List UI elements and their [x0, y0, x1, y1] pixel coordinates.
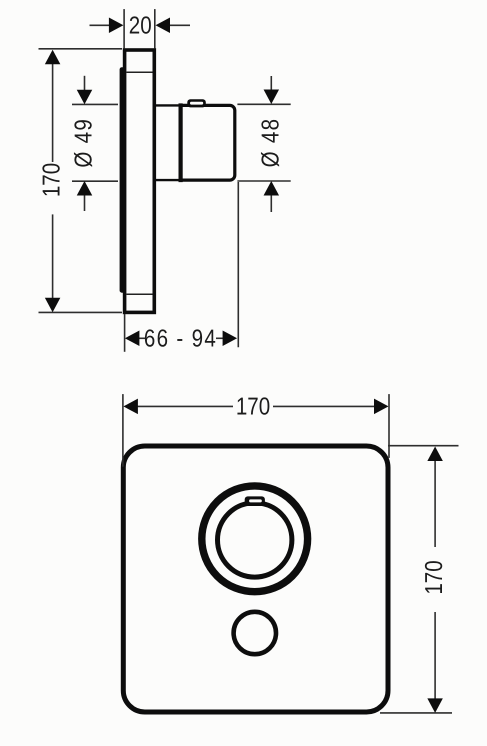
knob grip tab side view	[187, 99, 206, 107]
dimension diameter 49	[72, 76, 118, 211]
svg-text:Ø 48: Ø 48	[257, 118, 284, 168]
svg-text:170: 170	[39, 163, 66, 197]
dimension 170 side view	[39, 49, 123, 313]
thermostat handle outer circle	[202, 486, 308, 592]
thermostat handle inner ring	[218, 503, 292, 577]
svg-text:Ø 49: Ø 49	[71, 118, 98, 168]
dimension 170 front right	[380, 446, 459, 713]
sleeve side view	[155, 105, 181, 180]
svg-text:170: 170	[421, 560, 448, 594]
handle grip tab front view	[245, 496, 265, 506]
plate inner top line	[126, 71, 152, 73]
dimension 170 front top	[123, 394, 389, 467]
faceplate front view	[123, 446, 388, 712]
dimension 66-94	[125, 182, 239, 352]
plate inner bottom line	[126, 293, 152, 295]
escutcheon plate side view	[125, 50, 155, 312]
wall flange strip	[120, 67, 126, 293]
volume control knob front view	[234, 612, 276, 654]
dimension 20	[90, 9, 191, 48]
handle knob side view	[181, 103, 235, 182]
dimension diameter 48	[237, 76, 290, 212]
svg-text:170: 170	[236, 393, 270, 420]
svg-text:20: 20	[129, 13, 152, 40]
svg-text:66 - 94: 66 - 94	[144, 325, 217, 352]
